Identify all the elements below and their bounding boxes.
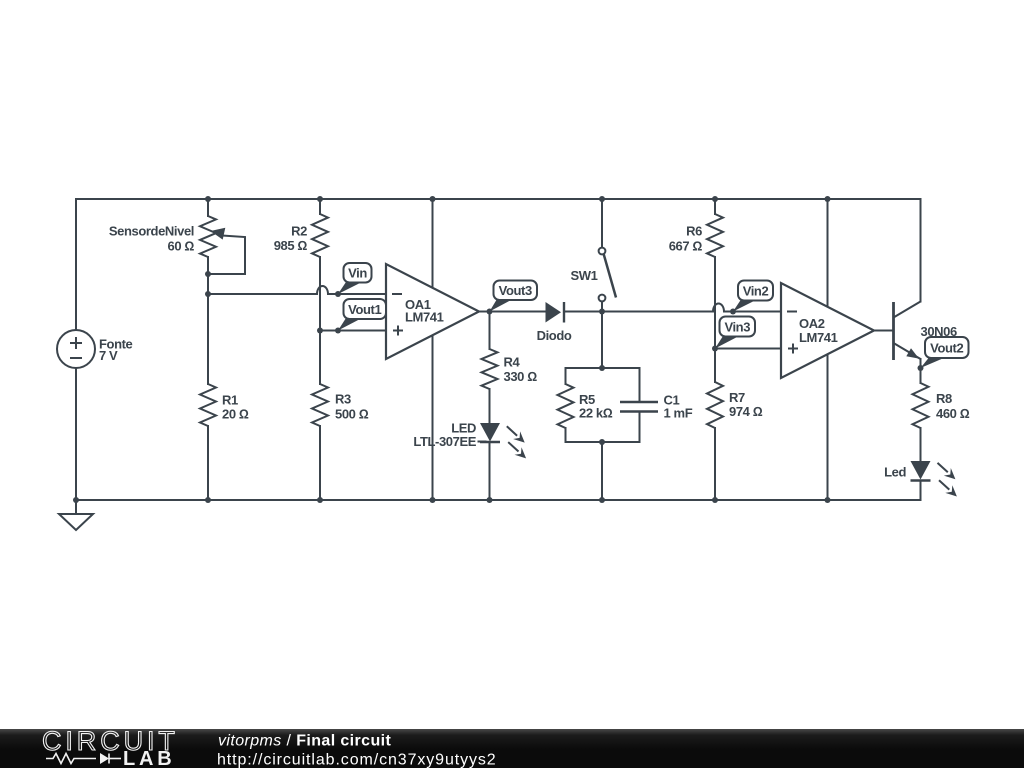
svg-text:667 Ω: 667 Ω [669,239,703,254]
LED light arrows [507,426,525,442]
potentiometer SensordeNivel [200,216,245,274]
wiper arm [208,236,245,275]
wire OA1 output [479,311,546,313]
wire top rail [76,198,921,200]
diode Diodo [537,302,572,343]
LED Led [911,461,957,497]
svg-text:460 Ω: 460 Ω [936,406,970,421]
svg-text:Led: Led [884,465,906,480]
wire R4 branch [489,312,491,501]
wire SensordeNivel branch vertical [207,199,209,500]
svg-text:Vin: Vin [348,266,367,281]
svg-text:LM741: LM741 [405,310,444,325]
label LED LTL-307EE [413,421,476,450]
svg-text:OA2: OA2 [799,316,825,331]
node label Vout1 [338,299,386,331]
op-amp OA1 [386,264,479,359]
svg-text:Vout2: Vout2 [930,341,963,356]
svg-text:R1: R1 [222,393,238,408]
node label Vout3 [490,281,538,312]
wire left vertical (top rail to source) [75,199,77,330]
label R4 330 ohm [504,355,538,385]
capacitor C1 [620,402,658,412]
wire R6/R7 branch vertical [714,199,716,500]
label R7 974 ohm [729,390,763,419]
svg-text:Vin3: Vin3 [724,320,750,335]
wire R2/R3 branch vertical [319,199,321,500]
logo resistor-diode glyph [46,754,121,764]
svg-text:vitorpms / Final circuit: vitorpms / Final circuit [218,733,391,750]
svg-text:SensordeNivel: SensordeNivel [109,224,194,239]
label R5 22 kohm [579,392,613,421]
wire OA1 power rail vertical [432,199,434,500]
svg-text:60 Ω: 60 Ω [168,239,195,254]
wire source to bottom rail [75,368,77,500]
wire SW1 vertical top [601,199,603,248]
svg-text:Vin2: Vin2 [743,284,769,299]
node label Vout2 [921,337,969,368]
svg-text:R8: R8 [936,391,952,406]
svg-text:R3: R3 [335,392,351,407]
wire R5C1 to bottom rail [601,442,603,500]
label R6 667 ohm [669,224,703,254]
svg-text:22 kΩ: 22 kΩ [579,406,613,421]
wire OA1 plus input [320,330,386,332]
label R2 985 ohm [274,224,308,254]
wire hop over R2 branch [317,286,328,294]
wiper arrowhead [211,228,226,240]
svg-text:R4: R4 [504,355,521,370]
label R8 460 ohm [936,391,970,421]
svg-text:7 V: 7 V [99,348,118,363]
footer bar [0,729,1024,768]
emitter arrowhead [906,348,919,358]
ground [59,500,93,530]
label R3 500 ohm [335,392,369,422]
wire OA1 minus input from node [208,293,317,295]
svg-text:974 Ω: 974 Ω [729,404,763,419]
svg-text:SW1: SW1 [571,268,598,283]
label leader dash [478,441,487,443]
svg-text:1 mF: 1 mF [664,406,693,421]
resistor R5 [558,384,574,428]
wire to OA2 minus [724,311,781,313]
resistor R3 [312,384,328,426]
svg-text:LAB: LAB [123,748,176,768]
wire R5C1 bottom bus [566,441,640,443]
resistor R7 [707,382,723,428]
svg-text:Vout3: Vout3 [499,283,532,298]
resistor R8 [913,383,929,428]
wire OA2 output to base [874,330,894,332]
node label Vin3 [715,317,755,349]
Led light arrows [938,463,956,479]
wire hop to OA1 minus [328,293,386,295]
resistor R2 [312,214,328,257]
LED LTL-307EE [480,423,526,458]
wire R5C1 top bus [566,367,640,369]
node label Vin2 [733,281,773,312]
wire R8 to Led [920,428,922,500]
svg-text:330 Ω: 330 Ω [504,369,538,384]
svg-text:LM741: LM741 [799,330,838,345]
svg-text:R6: R6 [686,224,702,239]
resistor R6 [707,214,723,257]
wire OA2 power rail vertical [827,199,829,500]
wire hop over R6 branch [713,304,724,312]
svg-text:http://circuitlab.com/cn37xy9u: http://circuitlab.com/cn37xy9utyys2 [217,752,497,768]
wire bottom rail [76,499,921,501]
wire right vertical collector [920,199,922,302]
svg-text:Vout1: Vout1 [348,302,381,317]
svg-text:Diodo: Diodo [537,328,572,343]
wire emitter to R8 [920,359,922,383]
transistor 30N06 [894,302,921,361]
node label Vin [338,263,372,294]
op-amp OA2 [781,283,874,378]
label Fonte 7 V [99,337,133,364]
resistor R1 [200,384,216,426]
wire OA2 plus input [715,348,781,350]
wire C1 vertical [639,368,641,442]
label R1 20 ohm [222,393,249,422]
svg-text:LTL-307EE: LTL-307EE [413,434,476,449]
switch SW1 [599,248,616,302]
svg-text:20 Ω: 20 Ω [222,407,249,422]
svg-text:985 Ω: 985 Ω [274,238,308,253]
svg-text:R7: R7 [729,390,745,405]
svg-text:500 Ω: 500 Ω [335,407,369,422]
label C1 1 mF [664,393,693,421]
resistor R4 [482,349,498,389]
wire SW1 bottom to R5C1 [601,301,603,368]
voltage source Fonte [57,330,95,368]
wire diode to SW1 node [565,311,713,313]
svg-text:R2: R2 [291,224,307,239]
label SensordeNivel 60 ohm [109,224,195,254]
wire R5 vertical [565,368,567,442]
